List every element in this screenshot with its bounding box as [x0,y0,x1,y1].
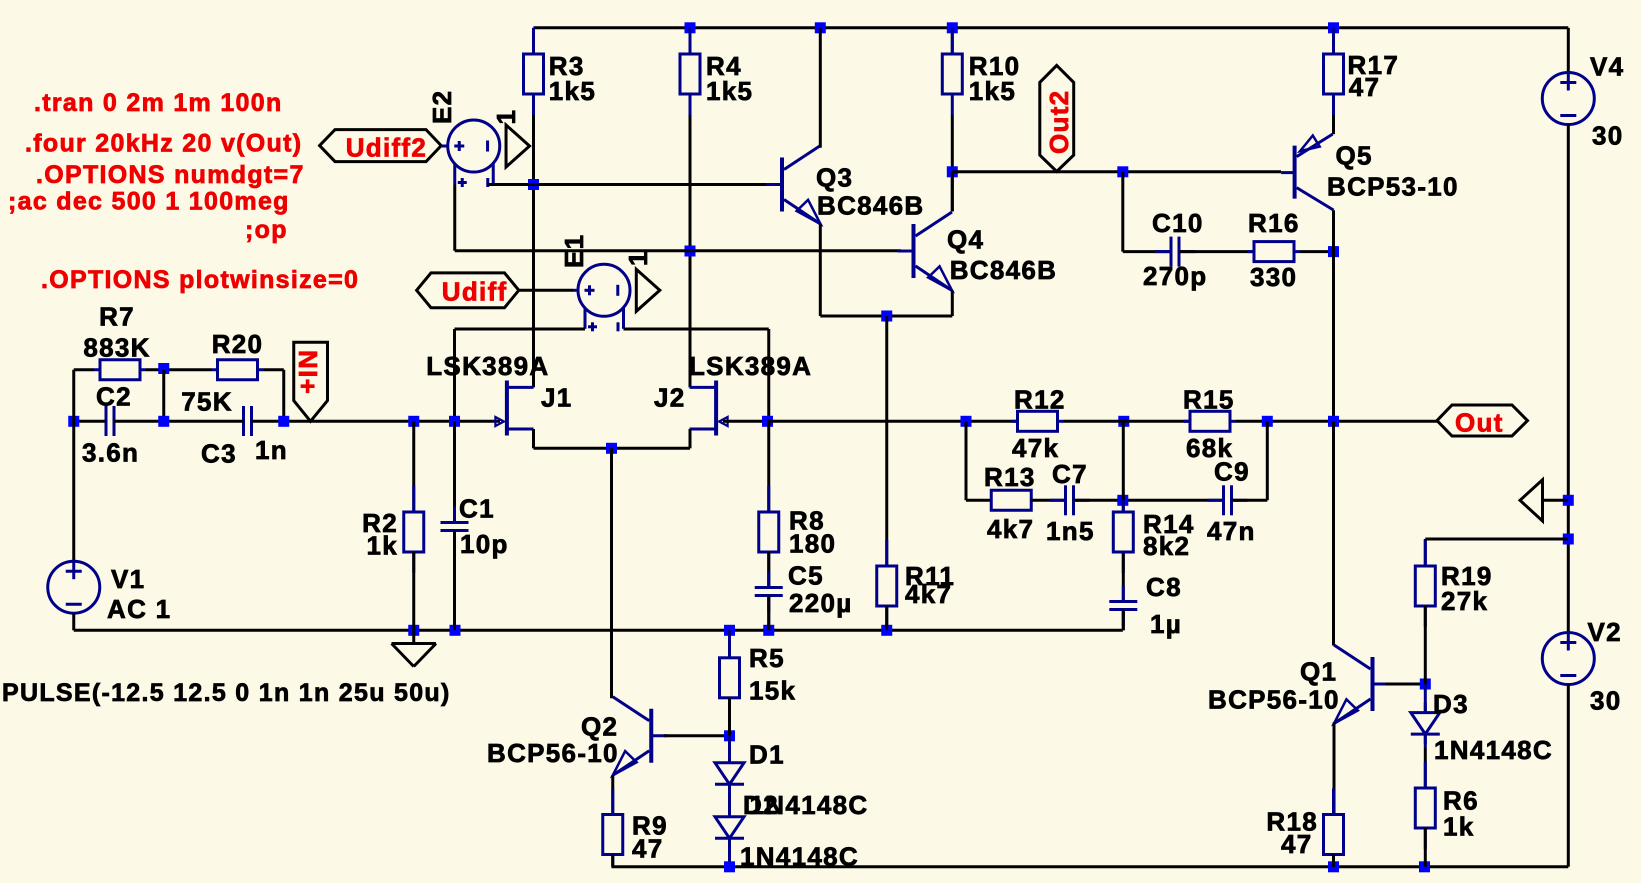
resistor R13 [991,490,1031,510]
svg-text:Q2: Q2 [581,711,618,741]
wire [162,370,165,422]
svg-text:BCP56-10: BCP56-10 [487,738,619,768]
wire [611,775,614,814]
wire [284,420,500,423]
wire [1122,610,1125,631]
svg-text:C7: C7 [1052,459,1088,489]
svg-text:BCP56-10: BCP56-10 [1208,685,1340,715]
svg-text:;ac dec 500 1 100meg: ;ac dec 500 1 100meg [8,188,290,216]
resistor R18 [1332,789,1335,815]
svg-text:BC846B: BC846B [950,255,1058,285]
wire [1386,683,1426,686]
wire [1543,499,1569,502]
transistor Q5 [1293,146,1297,199]
capacitor C1 [453,507,456,523]
junction [1328,861,1339,872]
junction [724,730,735,741]
svg-text:1k: 1k [1443,812,1475,842]
wire [610,448,613,698]
svg-text:47: 47 [1349,72,1381,102]
junction [408,625,419,636]
junction [1117,166,1128,177]
diode D1 [728,753,731,763]
svg-text:R13: R13 [984,462,1036,492]
svg-text:Udiff: Udiff [442,277,508,307]
wire [453,531,456,631]
wire [74,368,94,371]
net flag Udiff [417,273,519,308]
svg-text:AC 1: AC 1 [107,594,171,624]
svg-text:3.6n: 3.6n [82,438,139,468]
voltage source V4 [1542,73,1594,125]
junction [947,22,958,33]
svg-text:Q4: Q4 [947,225,984,255]
wire [1424,539,1427,566]
wire [728,630,731,658]
wire [1567,685,1570,867]
gain triangle E1 [636,269,660,311]
svg-text:180: 180 [789,529,836,559]
junction [1262,416,1273,427]
svg-text:R5: R5 [749,643,785,673]
wire [488,183,771,186]
voltage source V1 [48,561,100,613]
resistor R11 [885,540,888,566]
wire [453,329,456,421]
wire [951,115,954,212]
wire [1064,420,1191,423]
wire [1122,500,1125,512]
svg-text:1N4148C: 1N4148C [1434,735,1553,765]
svg-text:J1: J1 [541,382,573,412]
wire [767,329,770,421]
transistor Q2 [649,709,653,763]
wire [768,420,1018,423]
capacitor C9 [1208,499,1224,502]
svg-text:C10: C10 [1152,208,1204,238]
junction [961,416,972,427]
wire [532,28,535,54]
wire [455,328,586,331]
wire [532,115,535,387]
svg-text:V2: V2 [1588,617,1622,647]
net flag Out2 [1040,65,1074,171]
resistor R16 [1248,250,1254,253]
wire [164,420,244,423]
wire [1332,115,1335,134]
svg-text:LSK389A: LSK389A [426,351,549,381]
JFET J1 [505,381,509,436]
wire [1236,420,1437,423]
svg-text:1µ: 1µ [1150,609,1182,639]
svg-text:47: 47 [1281,829,1313,859]
junction [685,246,696,257]
wire [1424,748,1427,788]
svg-text:V4: V4 [1590,52,1624,82]
svg-text:8k2: 8k2 [1143,531,1190,561]
junction [1328,246,1339,257]
svg-text:27k: 27k [1441,586,1488,616]
capacitor C7 [1050,499,1066,502]
junction [1117,495,1128,506]
wire [1179,250,1254,253]
wire [519,289,573,292]
wire [728,736,731,763]
resistor R2 [412,486,415,512]
svg-text:C9: C9 [1214,457,1250,487]
junction [606,443,617,454]
wire [252,420,284,423]
junction [278,416,289,427]
svg-text:R15: R15 [1183,385,1235,415]
JFET J2 [714,381,718,436]
wire [1424,734,1427,748]
svg-text:;op: ;op [245,216,288,244]
resistor R3 [532,28,535,54]
wire [573,289,579,292]
wire [819,28,822,148]
net flag IN+ [294,342,328,421]
junction [408,416,419,427]
diode D3 [1424,703,1427,713]
junction [1563,495,1574,506]
svg-text:NI+: NI+ [293,350,323,395]
diode D2 [728,807,731,817]
svg-text:C5: C5 [788,561,824,591]
voltage source V2 [1542,633,1594,685]
wire [966,499,991,502]
resistor R6 [1424,762,1427,788]
wire [728,838,731,867]
svg-text:C1: C1 [459,494,495,524]
wire [767,552,770,588]
junction [449,416,460,427]
wire [885,606,888,630]
wire [264,368,284,371]
ground [412,630,415,643]
wire [819,224,822,316]
wire [1424,606,1427,684]
wire [689,429,692,448]
svg-text:75K: 75K [181,387,233,417]
transistor Q3 [780,158,784,212]
wire [1123,250,1171,253]
svg-text:E1: E1 [559,234,589,268]
svg-text:R20: R20 [212,329,264,359]
wire [1031,499,1065,502]
resistor R17 [1332,28,1335,54]
resistor R10 [951,28,954,54]
wire [532,429,535,448]
wire [728,784,731,817]
svg-text:.tran 0 2m 1m 100n: .tran 0 2m 1m 100n [34,89,283,117]
wire [951,28,954,54]
wire [1332,28,1335,54]
svg-text:1k5: 1k5 [706,76,753,106]
junction [528,179,539,190]
junction [1563,534,1574,545]
wire [767,596,770,631]
junction [158,416,169,427]
junction [68,416,79,427]
svg-text:D3: D3 [1433,689,1469,719]
svg-text:Q1: Q1 [1300,657,1337,687]
svg-text:LSK389A: LSK389A [689,351,812,381]
wire [612,865,1569,868]
wire [664,734,730,737]
transistor Q1 [1371,657,1375,711]
wire [1121,172,1124,252]
junction [724,861,735,872]
gain triangle E2 [506,125,530,167]
svg-text:.OPTIONS numdgt=7: .OPTIONS numdgt=7 [36,161,305,189]
svg-text:V1: V1 [111,564,145,594]
wire [965,421,968,500]
dependent source E1 [578,264,630,316]
junction [881,311,892,322]
wire [1567,28,1570,73]
wire [1122,553,1125,602]
svg-text:Q3: Q3 [816,163,853,193]
capacitor C8 [1122,586,1125,602]
wire [1424,828,1427,867]
wire [1332,210,1335,421]
svg-text:270p: 270p [1143,261,1207,291]
arrow flag [1520,480,1543,521]
wire [74,629,1123,632]
svg-text:C2: C2 [96,382,132,412]
svg-text:1: 1 [623,250,653,266]
svg-text:E2: E2 [427,90,457,124]
wire [610,697,613,700]
wire [534,26,1569,29]
svg-text:R12: R12 [1014,385,1066,415]
resistor R7 [94,368,100,371]
wire [1074,499,1224,502]
svg-text:.four 20kHz 20 v(Out): .four 20kHz 20 v(Out) [25,130,302,158]
wire [767,596,770,631]
wire [453,421,456,522]
junction [158,363,169,374]
wire [1425,538,1568,541]
svg-text:47: 47 [632,834,664,864]
transistor Q4 [912,224,916,278]
capacitor C3 [242,406,245,436]
wire [412,421,415,512]
wire [728,698,731,736]
capacitor C10 [1155,250,1171,253]
wire [1332,855,1335,867]
wire [453,185,456,251]
wire [441,145,448,148]
svg-text:883K: 883K [83,333,150,363]
svg-text:10p: 10p [460,529,509,559]
svg-text:Out: Out [1455,408,1504,438]
wire [1300,250,1334,253]
resistor R19 [1424,540,1427,566]
svg-text:1k5: 1k5 [969,76,1016,106]
resistor R12 [1012,420,1018,423]
svg-text:47n: 47n [1207,516,1256,546]
junction [1328,22,1339,33]
svg-text:C3: C3 [201,439,237,469]
resistor R14 [1122,500,1125,512]
wire [455,249,901,252]
svg-text:4k7: 4k7 [987,514,1034,544]
svg-text:Out2: Out2 [1044,90,1074,154]
wire [951,291,954,317]
wire [114,420,164,423]
svg-text:R7: R7 [99,302,135,332]
svg-text:R16: R16 [1248,208,1300,238]
svg-text:220µ: 220µ [789,588,853,618]
junction [1420,679,1431,690]
junction [947,166,958,177]
wire [885,316,888,566]
wire [72,613,75,630]
junction [1328,416,1339,427]
wire [952,170,1281,173]
svg-text:1: 1 [491,109,521,125]
svg-text:BC846B: BC846B [817,191,925,221]
svg-text:PULSE(-12.5 12.5 0 1n 1n 25u 5: PULSE(-12.5 12.5 0 1n 1n 25u 50u) [2,679,451,707]
svg-text:1k5: 1k5 [549,76,596,106]
wire [1567,125,1570,633]
svg-text:1n5: 1n5 [1046,516,1095,546]
wire [611,855,614,867]
svg-text:1N4148C: 1N4148C [750,790,869,820]
wire [282,370,285,422]
svg-text:D1: D1 [749,740,785,770]
wire [1122,610,1125,631]
wire [146,368,212,371]
wire [624,328,769,331]
junction [1118,416,1129,427]
wire [820,315,952,318]
dependent source E2 [448,120,500,172]
net flag Udiff2 [320,130,442,162]
junction [881,625,892,636]
svg-text:Q5: Q5 [1336,141,1373,171]
resistor R9 [611,789,614,815]
svg-text:15k: 15k [749,676,796,706]
junction [763,625,774,636]
junction [762,416,773,427]
resistor R5 [728,630,731,658]
svg-text:J2: J2 [654,382,686,412]
wire [72,370,75,561]
svg-text:1n: 1n [255,435,288,465]
svg-text:4k7: 4k7 [905,579,952,609]
wire [689,28,692,54]
svg-text:Udiff2: Udiff2 [346,133,427,163]
capacitor C2 [105,406,108,436]
wire [767,421,770,512]
svg-text:30: 30 [1592,121,1624,151]
net flag Out [1437,405,1528,436]
svg-text:BCP53-10: BCP53-10 [1327,172,1459,202]
svg-text:1k: 1k [366,531,398,561]
svg-text:.OPTIONS plotwinsize=0: .OPTIONS plotwinsize=0 [41,266,359,294]
resistor R8 [767,486,770,512]
wire [534,447,691,450]
svg-text:C8: C8 [1146,572,1182,602]
junction [450,625,461,636]
wire [1266,421,1269,500]
wire [412,552,415,630]
resistor R15 [1184,420,1190,423]
wire [1333,723,1336,815]
junction [1419,861,1430,872]
wire [723,420,768,423]
wire [1122,421,1125,500]
wire [951,172,954,212]
junction [815,22,826,33]
resistor R4 [689,28,692,54]
junction [685,22,696,33]
wire [1332,421,1335,645]
svg-text:30: 30 [1590,686,1622,716]
svg-text:330: 330 [1250,262,1297,292]
resistor R20 [212,368,218,371]
capacitor C5 [767,572,770,588]
wire [689,115,692,387]
wire [74,420,106,423]
wire [1232,499,1268,502]
junction [724,625,735,636]
wire [1424,684,1427,713]
